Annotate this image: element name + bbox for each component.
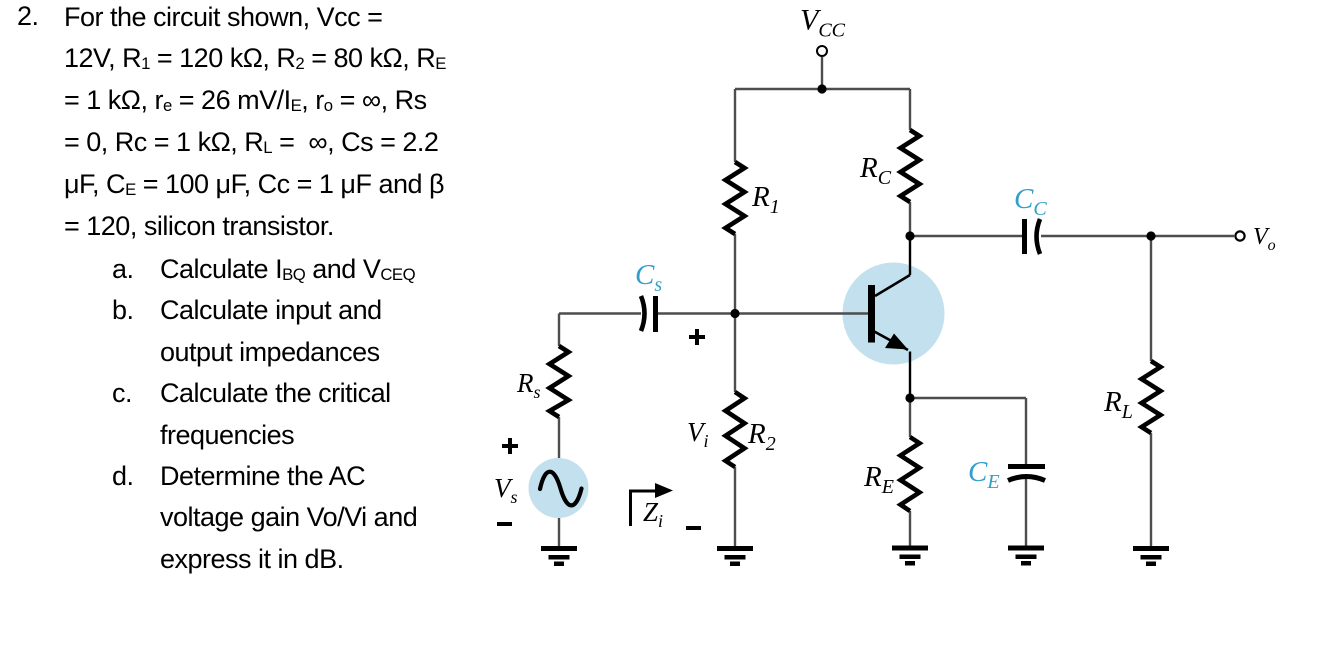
svg-text:Vo: Vo: [1253, 224, 1276, 254]
svg-text:Zi: Zi: [643, 497, 663, 531]
svg-text:RL: RL: [1103, 386, 1133, 423]
svg-text:RC: RC: [859, 152, 892, 189]
svg-text:CE: CE: [968, 456, 1000, 493]
svg-text:RE: RE: [863, 461, 894, 498]
svg-text:Vs: Vs: [494, 473, 518, 507]
svg-text:R2: R2: [747, 418, 776, 455]
svg-text:Cs: Cs: [635, 259, 662, 296]
svg-text:Rs: Rs: [516, 368, 541, 402]
svg-text:VCC: VCC: [800, 4, 846, 42]
svg-text:R1: R1: [751, 181, 780, 218]
svg-text:CC: CC: [1014, 183, 1047, 220]
svg-text:Vi: Vi: [687, 417, 709, 451]
